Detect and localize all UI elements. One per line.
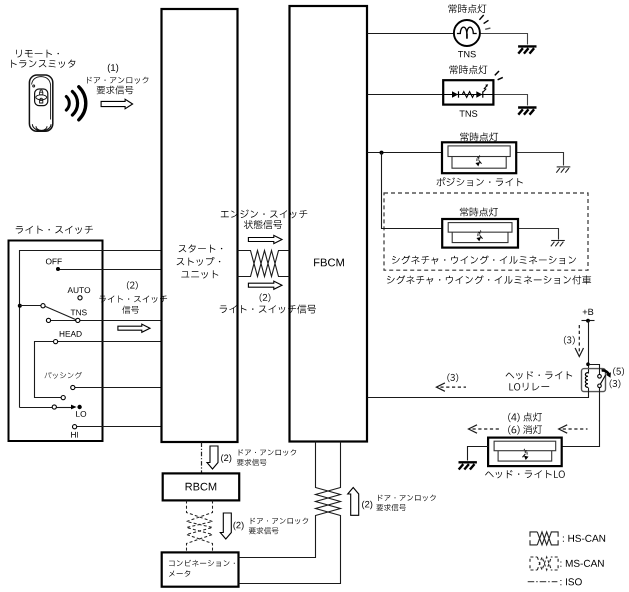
wire HS-CAN high (238, 251, 290, 277)
dashed arrow (4)(6) right (559, 425, 588, 433)
label remote transmitter line2 (11, 60, 75, 69)
wire OFF contact to start-stop unit (59, 269, 162, 271)
wire pivot to blade contact (20, 305, 41, 307)
contact AUTO (78, 296, 82, 300)
label MS-CAN (560, 560, 603, 567)
relay headlight LO box (582, 369, 606, 392)
ground headlight LO (459, 462, 477, 469)
label signature wing equipped cars (387, 275, 591, 284)
junction relay branch (586, 362, 590, 366)
FBCM box (290, 6, 368, 442)
wire MS-CAN RBCM-meter line A (187, 501, 213, 553)
arrow door unlock request to FBCM (348, 488, 359, 516)
lamp headlight LO (488, 438, 562, 467)
wire relay coil to FBCM (368, 388, 589, 398)
label start-stop unit line2 (177, 257, 221, 266)
label FBCM (314, 259, 344, 267)
arrow engine switch status signal (248, 235, 282, 243)
relay coil (585, 373, 588, 388)
contact passing lower (61, 396, 65, 400)
label door unlock request FBCM line1 (378, 495, 436, 502)
legend HS-CAN symbol (530, 532, 558, 545)
wire LO row (20, 407, 53, 409)
label LO (76, 411, 86, 417)
wire headlight LO to ground (468, 447, 489, 461)
light rays TNS LED (495, 71, 503, 80)
wire FBCM to position light (368, 152, 443, 154)
light switch box (9, 241, 103, 442)
wire +B terminal bar (582, 320, 595, 322)
label always-on TNS LED (449, 65, 487, 74)
contact blade left (41, 304, 45, 308)
wire branch to signature lamp (382, 153, 443, 229)
label start-stop unit line1 (179, 244, 223, 252)
LED emission arrow (483, 86, 487, 92)
label ISO (560, 578, 581, 585)
label (2) RBCM arrow (221, 454, 231, 463)
wire HEAD loop to passing contact (35, 342, 62, 398)
label light switch signal (220, 305, 316, 314)
label headlight LO relay line2 (509, 383, 549, 391)
arrow door unlock request (1) (101, 99, 133, 109)
lamp TNS bulb (454, 20, 480, 46)
wire relay switch to headlight LO (562, 388, 600, 447)
wire TNS LED to ground (494, 95, 528, 106)
relay switch contact bottom (598, 384, 602, 388)
lamp signature wing illumination (442, 219, 518, 248)
label engine switch status line1 (221, 210, 307, 219)
label (3) +B arrow (564, 336, 575, 345)
label RBCM (186, 483, 217, 491)
wire HI row to start-stop unit (77, 426, 162, 428)
label headlight LO (485, 470, 565, 478)
wire FBCM to TNS LED (368, 94, 444, 96)
label (1) (108, 64, 118, 73)
junction +B (586, 319, 590, 323)
junction LO terminal (77, 405, 81, 409)
label (2) below arrow (260, 293, 271, 302)
contact TNS left (46, 318, 50, 322)
label AUTO (68, 287, 91, 293)
wire HS-CAN low (238, 251, 290, 277)
arrowhead LO blade direction (71, 405, 77, 410)
label TNS bulb (458, 51, 476, 58)
label (2) light switch signal (127, 281, 138, 290)
contact HEAD (54, 340, 58, 344)
TNS LED unit box (443, 80, 493, 104)
wire +B to relay coil (588, 321, 590, 374)
ground position light (556, 167, 570, 173)
dashed arrow (4)(6) left (469, 425, 501, 433)
transmitter radio signal waves (66, 87, 85, 120)
label door unlock request signal line2 (97, 86, 134, 95)
dashed arrow (3) to FBCM (436, 383, 466, 391)
label HS-CAN (563, 535, 605, 542)
wire MS-CAN RBCM-meter line B (187, 501, 213, 553)
wire FBCM to TNS bulb (368, 33, 455, 35)
resistor in TNS LED unit (462, 92, 474, 98)
signature wing illumination option dashed box (384, 193, 588, 270)
contact TNS right (76, 318, 80, 322)
LED diode in TNS LED unit (476, 91, 482, 97)
junction OFF contact (56, 267, 60, 271)
wire MS-CAN FBCM-meter line B (239, 442, 341, 584)
dashed arrow (3) power feed (575, 325, 583, 357)
diode 1 in TNS LED unit (452, 91, 458, 97)
junction switch blade pivot (18, 304, 22, 308)
switch blade TNS (46, 307, 76, 320)
wire relay branch to switch contact (589, 365, 600, 375)
remote transmitter key fob (29, 75, 52, 131)
label signature wing illumination (392, 256, 576, 265)
label combination meter line1 (169, 560, 235, 567)
contact HI (73, 425, 77, 429)
start-stop unit box (162, 9, 238, 442)
label light switch signal line2 (122, 306, 139, 314)
label (3) relay (610, 380, 621, 389)
arrow light switch signal to FBCM (248, 281, 282, 289)
label OFF (46, 259, 62, 265)
wire MS-CAN FBCM-meter line A (239, 442, 341, 558)
RBCM box (163, 473, 240, 500)
label (6) off (508, 425, 542, 435)
label combination meter line2 (169, 570, 190, 577)
arrow door unlock request to meter (220, 513, 231, 539)
label door unlock request meter line2 (249, 527, 279, 534)
label remote transmitter line1 (16, 50, 59, 58)
lamp position light (442, 142, 516, 173)
wire passing row to start-stop unit (75, 387, 162, 389)
label position light (437, 177, 523, 186)
label door unlock request meter line1 (251, 518, 309, 525)
label always-on signature (460, 208, 498, 217)
legend MS-CAN symbol (530, 557, 558, 570)
ground TNS LED (518, 108, 536, 115)
wire light switch internal bus (20, 251, 162, 408)
relay switch blade (600, 375, 605, 384)
relay actuation curved arrow (602, 370, 609, 374)
label light switch signal line1 (99, 296, 167, 303)
contact passing (71, 385, 75, 389)
wire position light to ground (517, 153, 564, 166)
label (3) relay output (447, 373, 458, 382)
label +B (583, 309, 594, 315)
label door unlock request RBCM line1 (239, 449, 297, 456)
wire ISO start-stop unit to RBCM (201, 443, 203, 474)
label headlight LO relay line1 (506, 371, 573, 379)
wire signature lamp to ground (519, 229, 559, 240)
label start-stop unit line3 (181, 270, 218, 278)
wire LO contact to LO terminal (57, 407, 73, 409)
label (4) on (508, 413, 542, 423)
label (2) meter arrow (233, 522, 243, 531)
junction position light branch (380, 151, 384, 155)
light rays TNS bulb (479, 15, 490, 29)
label (5) relay (613, 367, 624, 376)
wire HEAD row to start-stop unit (58, 341, 162, 343)
combination meter box (162, 552, 239, 586)
label HI (71, 432, 78, 438)
wire inside TNS LED unit (443, 94, 493, 96)
label passing (45, 372, 82, 379)
arrow door unlock request to RBCM (207, 446, 218, 469)
label TNS LED (460, 110, 478, 117)
legend ISO line (528, 581, 558, 583)
label door unlock request RBCM line2 (237, 459, 267, 466)
label engine switch status line2 (244, 220, 282, 229)
label door unlock request FBCM line2 (376, 504, 406, 511)
label always-on TNS bulb (448, 4, 486, 13)
label HEAD (60, 331, 82, 337)
arrow light switch signal (2) (118, 324, 150, 332)
label door unlock request signal line1 (87, 77, 148, 84)
label always-on position light (460, 132, 498, 141)
label TNS (71, 310, 87, 316)
wire TNS bulb to ground (480, 34, 528, 45)
ground signature wing illumination (551, 241, 565, 247)
relay switch contact top (598, 375, 602, 379)
label light switch (16, 226, 93, 234)
wire TNS row to start-stop unit (51, 320, 162, 322)
label (2) FBCM arrow (362, 501, 372, 510)
contact LO (52, 405, 56, 409)
ground TNS bulb (518, 46, 536, 53)
